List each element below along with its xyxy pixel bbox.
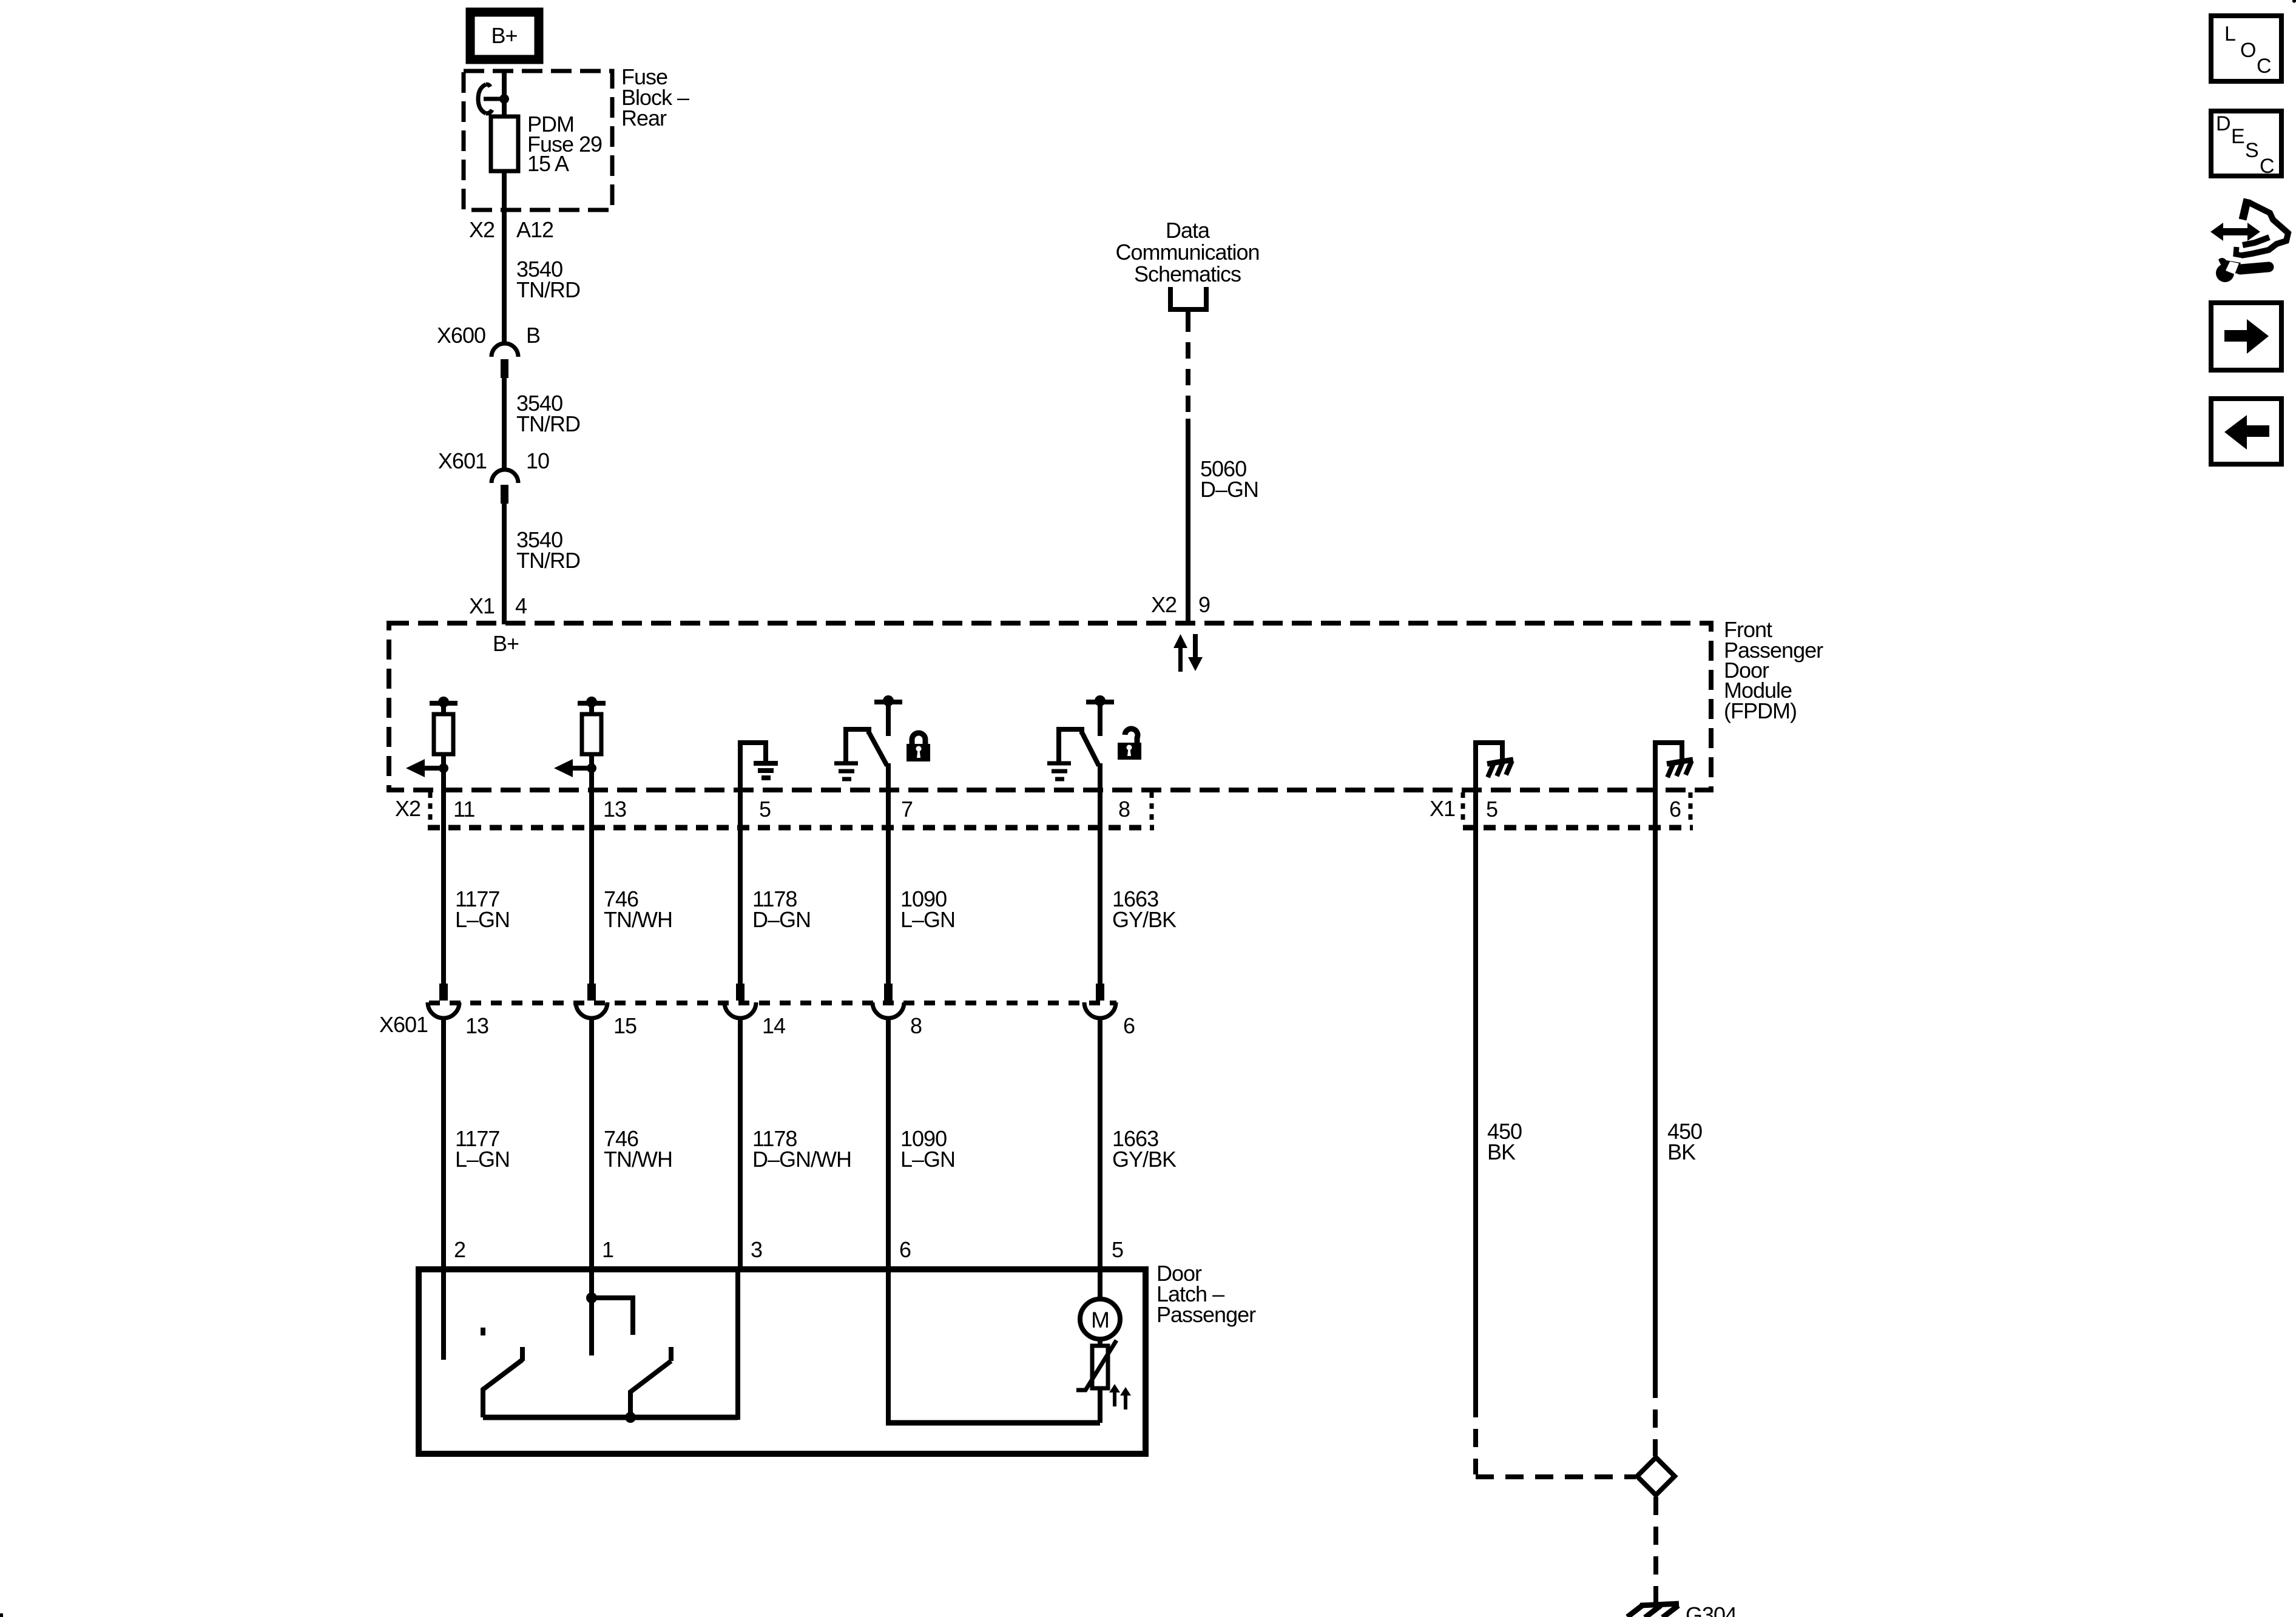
wire 450 BK left dashed to splice: [1476, 1399, 1636, 1477]
svg-text:GY/BK: GY/BK: [1112, 1147, 1177, 1172]
label 1178 D-GN upper: [752, 886, 811, 932]
wire fuse to X600: [502, 171, 507, 345]
latch pin 5 wire to motor: [1098, 1272, 1102, 1301]
connector X601 pin 8 pass-through: [873, 984, 904, 1018]
driver resistor pin 11: [434, 714, 453, 754]
wire 1177 L-GN lower: [441, 1018, 446, 1269]
svg-text:X600: X600: [437, 323, 485, 348]
wire 450 BK right solid: [1653, 790, 1658, 1380]
wire 746 TN/WH lower: [589, 1018, 594, 1269]
connector X2 bottom dotted line: [428, 825, 1154, 831]
svg-text:B: B: [526, 323, 540, 348]
svg-text:X1: X1: [1430, 796, 1455, 821]
hand and wrench icon: [2210, 199, 2288, 282]
label X2 A12: [469, 217, 553, 242]
svg-text:TN/RD: TN/RD: [516, 277, 580, 302]
unlock switch ground pin 8: [1047, 763, 1071, 779]
svg-text:X2: X2: [469, 217, 495, 242]
svg-text:TN/RD: TN/RD: [516, 411, 580, 436]
svg-text:15 A: 15 A: [527, 151, 569, 176]
connector X601 pin 6 pass-through: [1084, 984, 1116, 1018]
svg-text:L–GN: L–GN: [455, 907, 510, 932]
svg-text:D–GN/WH: D–GN/WH: [752, 1147, 851, 1172]
fuse PDM Fuse 29 15 A: [491, 116, 518, 171]
svg-text:TN/WH: TN/WH: [604, 1147, 672, 1172]
wire 450 BK right dashed to splice: [1653, 1380, 1658, 1456]
svg-text:S: S: [2245, 139, 2259, 162]
wire label 5060 D-GN: [1200, 456, 1258, 502]
wire motor to PTC: [1098, 1339, 1102, 1346]
svg-text:BK: BK: [1487, 1139, 1516, 1164]
label 1090 L-GN upper: [900, 886, 955, 932]
DESC icon box: [2211, 111, 2281, 178]
svg-text:X601: X601: [438, 448, 487, 473]
latch pin 3 wire: [735, 1272, 740, 1420]
wire label 3540 TN/RD (2): [516, 391, 580, 436]
svg-text:15: 15: [613, 1013, 636, 1038]
svg-text:5: 5: [1112, 1237, 1123, 1262]
ground G304: [1627, 1604, 1679, 1617]
svg-text:(FPDM): (FPDM): [1724, 698, 1797, 723]
latch ajar switch blade: [483, 1347, 522, 1417]
connector X601 dotted line: [429, 1001, 1116, 1005]
wire 1663 GY/BK upper: [1098, 790, 1102, 985]
wire 1090 L-GN upper: [886, 790, 891, 985]
svg-text:L–GN: L–GN: [900, 907, 955, 932]
connector X1 right edge tick: [1689, 792, 1693, 825]
label 746 TN/WH lower: [604, 1126, 672, 1172]
latch lock switch fixed contact: [592, 1298, 633, 1335]
svg-text:Communication: Communication: [1115, 240, 1259, 265]
lock switch ground pin 7: [834, 763, 858, 779]
svg-text:M: M: [1091, 1308, 1109, 1332]
svg-text:D–GN: D–GN: [1200, 477, 1258, 502]
svg-text:L: L: [2224, 22, 2236, 46]
label X2 9: [1151, 592, 1210, 617]
svg-text:7: 7: [901, 797, 913, 822]
connector X2 right edge tick: [1150, 792, 1154, 825]
svg-text:G304: G304: [1686, 1602, 1737, 1617]
previous page arrow box: [2211, 399, 2281, 464]
label 1177 L-GN lower: [455, 1126, 510, 1172]
connector X600 pass-through: [491, 343, 518, 378]
svg-text:13: 13: [465, 1013, 488, 1038]
connector X1 bottom dotted line: [1463, 825, 1693, 831]
wire B+ to fuse: [502, 71, 507, 116]
svg-text:TN/WH: TN/WH: [604, 907, 672, 932]
connector X2 left edge tick: [428, 792, 433, 825]
wire 746 TN/WH upper: [589, 790, 594, 985]
latch junction dot: [625, 1412, 636, 1423]
motor M: [1080, 1299, 1120, 1339]
junction dot pin 13: [587, 763, 596, 773]
label 1663 GY/BK upper: [1112, 886, 1177, 932]
LOC icon box: [2211, 16, 2281, 81]
svg-text:5: 5: [1486, 797, 1497, 822]
wire X601 to FPDM: [502, 502, 507, 624]
wire 1178 D-GN upper: [738, 790, 743, 985]
lock switch pin 7: bus tap: [874, 695, 902, 736]
svg-text:B+: B+: [491, 23, 517, 48]
svg-text:13: 13: [603, 797, 626, 822]
latch ajar switch fixed contact tick: [481, 1328, 485, 1335]
FPDM module dashed box: [389, 623, 1711, 790]
svg-text:11: 11: [453, 797, 474, 822]
svg-text:L–GN: L–GN: [455, 1147, 510, 1172]
wire 450 BK left solid: [1473, 790, 1478, 1399]
junction dot in fuse block: [499, 94, 509, 104]
svg-text:GY/BK: GY/BK: [1112, 907, 1177, 932]
svg-text:X2: X2: [1151, 592, 1177, 617]
internal ground pin 5: [740, 743, 778, 790]
connector X601 pin 13 pass-through: [428, 984, 459, 1018]
svg-text:4: 4: [515, 593, 527, 618]
latch pin 1 junction dot: [586, 1292, 597, 1303]
svg-text:C: C: [2257, 55, 2272, 78]
label X1 4: [469, 593, 527, 618]
page corner artifact dot: [0, 1613, 3, 1617]
svg-text:B+: B+: [493, 631, 519, 656]
svg-text:6: 6: [1669, 797, 1681, 822]
svg-text:14: 14: [762, 1013, 785, 1038]
serial data up/down arrows: [1173, 634, 1203, 672]
wire 1177 L-GN upper: [441, 790, 446, 985]
label 450 BK right: [1667, 1119, 1702, 1164]
chassis ground X1 pin 6: [1655, 743, 1693, 790]
door latch box: [419, 1269, 1146, 1454]
off-page bracket: [1170, 287, 1206, 320]
dashed wire splice to ground: [1653, 1497, 1658, 1602]
label 1177 L-GN upper: [455, 886, 510, 932]
wire label 3540 TN/RD (1): [516, 257, 580, 302]
svg-text:Schematics: Schematics: [1134, 262, 1241, 286]
label X601 10: [438, 448, 549, 473]
driver output pin 13: bus tap: [578, 697, 606, 714]
driver output pin 11: bus tap: [430, 697, 458, 714]
wire 1090 L-GN lower: [886, 1018, 891, 1269]
page corner artifact top right: [2292, 0, 2296, 3]
svg-text:5: 5: [759, 797, 771, 822]
splice diamond: [1637, 1457, 1675, 1495]
wire 1178 D-GN/WH lower: [738, 1018, 743, 1269]
label 1178 D-GN/WH lower: [752, 1126, 851, 1172]
fuse block - rear dashed box: [464, 71, 612, 210]
svg-text:Rear: Rear: [621, 106, 667, 130]
label 1090 L-GN lower: [900, 1126, 955, 1172]
svg-text:6: 6: [1123, 1013, 1135, 1038]
latch pin 2 contact stub: [441, 1272, 446, 1360]
svg-text:8: 8: [1118, 797, 1130, 822]
label PDM Fuse 29 15 A: [527, 112, 602, 176]
latch pin 1 stub: [589, 1272, 594, 1355]
label Fuse Block - Rear: [621, 64, 689, 130]
label 746 TN/WH upper: [604, 886, 672, 932]
next page arrow box: [2211, 303, 2281, 370]
svg-text:L–GN: L–GN: [900, 1147, 955, 1172]
output arrow pin 13: [554, 759, 592, 777]
latch pin 6 wire: [886, 1272, 891, 1423]
wire X600 to X601: [502, 376, 507, 471]
wire 5060 solid segment: [1186, 419, 1190, 624]
label Data Communication Schematics: [1115, 218, 1259, 286]
label 1663 GY/BK lower: [1112, 1126, 1177, 1172]
svg-text:D: D: [2216, 112, 2231, 135]
closed padlock icon: [907, 733, 930, 761]
latch common bottom wire: [483, 1415, 738, 1420]
latch lock switch blade: [630, 1347, 671, 1417]
svg-text:O: O: [2240, 39, 2256, 62]
connector X601 pin 14 pass-through: [724, 984, 756, 1018]
wire PTC to bottom: [1098, 1388, 1102, 1423]
latch motor bottom wire: [886, 1420, 1100, 1426]
svg-text:Passenger: Passenger: [1156, 1302, 1256, 1327]
svg-text:6: 6: [899, 1237, 911, 1262]
svg-text:X601: X601: [379, 1012, 428, 1037]
svg-text:9: 9: [1198, 592, 1210, 617]
wire label 3540 TN/RD (3): [516, 527, 580, 573]
svg-text:A12: A12: [516, 217, 553, 242]
connector X601 pin 15 pass-through: [576, 984, 607, 1018]
svg-text:1: 1: [602, 1237, 613, 1262]
lock switch pin 7: [846, 729, 888, 790]
driver resistor pin 13: [582, 714, 601, 754]
svg-text:D–GN: D–GN: [752, 907, 811, 932]
svg-text:X2: X2: [395, 796, 420, 821]
label Front Passenger Door Module (FPDM): [1724, 617, 1823, 723]
svg-text:2: 2: [454, 1237, 465, 1262]
svg-text:10: 10: [526, 448, 549, 473]
junction dot pin 11: [439, 763, 448, 773]
svg-text:3: 3: [751, 1237, 762, 1262]
PTC thermistor: [1076, 1340, 1116, 1390]
svg-text:Data: Data: [1166, 218, 1210, 243]
wire 1663 GY/BK lower: [1098, 1018, 1102, 1269]
label Door Latch - Passenger: [1156, 1261, 1256, 1327]
connector X1 left edge tick: [1461, 792, 1465, 825]
svg-text:E: E: [2231, 125, 2245, 148]
wire resistor to node pin 11: [441, 754, 446, 790]
terminal tap symbol: [478, 84, 502, 113]
chassis ground X1 pin 5: [1476, 743, 1513, 790]
svg-text:X1: X1: [469, 593, 495, 618]
unlock switch pin 8: [1059, 729, 1100, 790]
double up arrows: [1109, 1384, 1131, 1409]
label X600 B: [437, 323, 540, 348]
wire 5060 dashed segment: [1186, 316, 1190, 419]
power symbol B+: [470, 12, 539, 59]
label 450 BK left: [1487, 1119, 1522, 1164]
open padlock icon: [1118, 729, 1141, 760]
svg-text:BK: BK: [1667, 1139, 1696, 1164]
output arrow pin 11: [406, 759, 444, 777]
unlock switch pin 8: bus tap: [1086, 695, 1114, 736]
wire resistor to node pin 13: [589, 754, 594, 790]
svg-text:TN/RD: TN/RD: [516, 548, 580, 573]
svg-text:C: C: [2260, 155, 2275, 178]
connector X601 pass-through (power): [491, 470, 518, 504]
svg-text:8: 8: [910, 1013, 922, 1038]
